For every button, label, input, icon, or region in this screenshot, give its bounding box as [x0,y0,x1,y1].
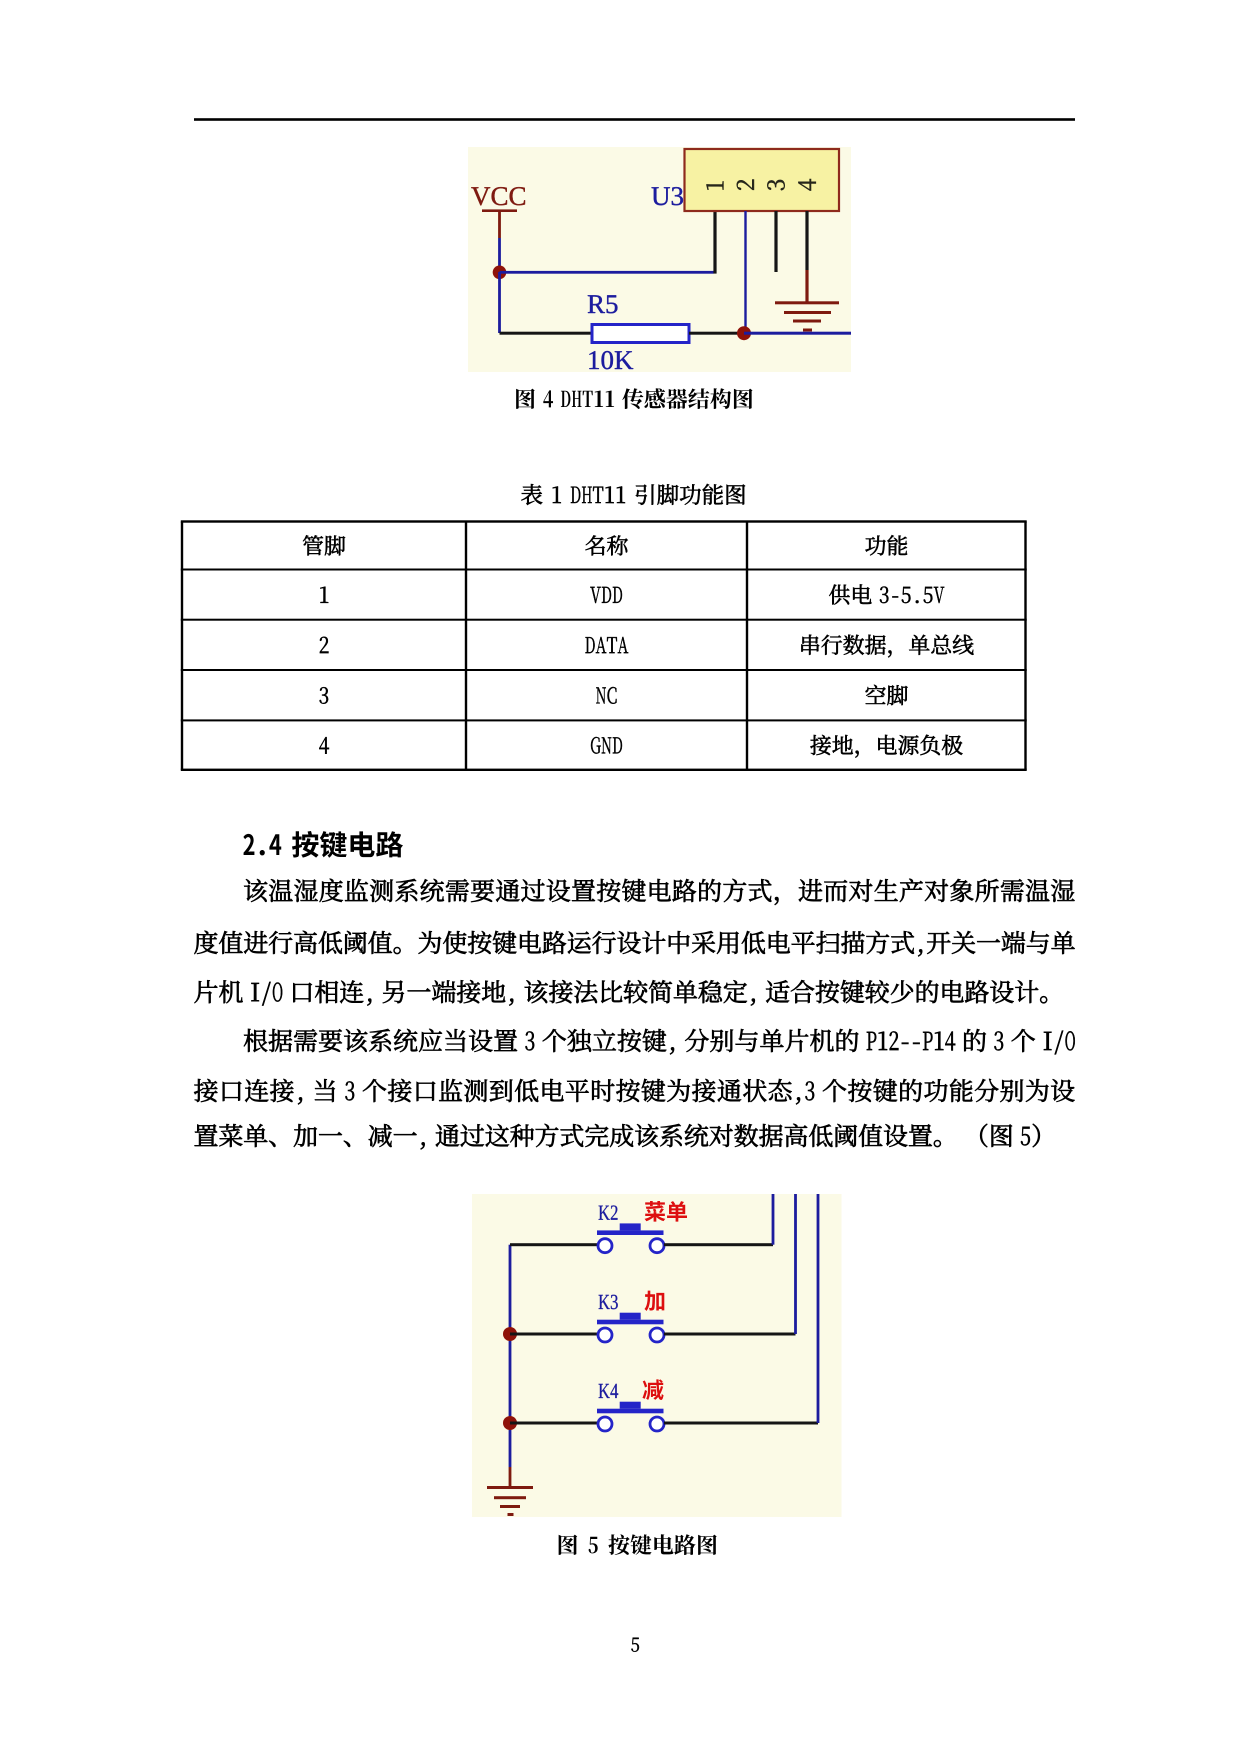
figure 5 caption [559,1535,578,1555]
switch K3 label [599,1295,610,1309]
wire rail to ground [509,1467,512,1487]
switch K4 right wire [664,1422,818,1425]
table caption [521,484,542,505]
header rule [194,118,1075,121]
wire pin 3 stub NC [774,211,777,272]
table row 3 [320,687,329,704]
junction dot K4 rail [503,1416,517,1430]
wire pin 2 to data node [744,211,746,333]
switch K4 function label [642,1379,663,1400]
wire node A to pin 1 [500,271,714,274]
junction dot A [493,266,507,280]
switch K4 actuator [597,1409,664,1414]
wire R5 to node B [689,332,744,335]
pin number 4 [798,179,815,191]
wire left rail [509,1245,512,1467]
body paragraph 2 [244,1029,267,1052]
figure 4 caption [516,389,535,409]
table header cells [303,535,323,555]
table grid [181,520,1027,522]
resistor R5 label [588,295,605,313]
wire K3 riser [794,1194,797,1334]
figure 5 background [472,1194,842,1517]
wire K4 riser [817,1194,820,1423]
ground symbol fig5 [487,1486,533,1489]
switch K2 left wire [510,1243,598,1246]
connector U3 label [652,187,670,205]
switch K3 right wire [664,1333,796,1336]
switch K3 actuator [597,1320,664,1325]
wire pin 4 to ground [805,211,808,270]
switch K3 left wire [510,1333,598,1336]
table row 1 [320,587,328,603]
pin number 3 [767,180,784,190]
wire VCC stub [498,238,501,272]
junction dot B [737,326,751,340]
switch K4 left wire [510,1422,598,1425]
wire pin 1 drop [713,211,716,274]
body paragraph 1 [244,879,267,902]
resistor R5 value 10K [589,351,599,369]
ground symbol fig4 [775,301,839,304]
power symbol VCC [471,187,490,205]
wire node A down to R5 [498,272,501,333]
switch K3 function label [644,1291,664,1311]
section heading 2.4 [243,834,254,855]
switch K3 contacts [598,1328,612,1342]
page number [631,1638,639,1652]
table row 2 [320,637,329,653]
connector U3 body [685,149,840,211]
wire node B to right edge [744,332,851,335]
switch K2 function label [645,1201,666,1222]
pin number 2 [737,180,754,190]
switch K2 actuator [597,1230,664,1235]
wire K2 riser [772,1194,775,1245]
switch K2 contacts [598,1239,612,1253]
switch K2 label [599,1206,610,1220]
pin number 1 [706,181,723,189]
wire left to R5 [500,332,593,335]
switch K2 right wire [664,1243,773,1246]
switch K4 contacts [598,1417,612,1431]
figure 4 background [468,147,851,372]
switch K4 label [599,1384,610,1398]
table row 4 [319,737,329,754]
resistor R5 body [592,325,689,343]
junction dot K3 rail [503,1327,517,1341]
